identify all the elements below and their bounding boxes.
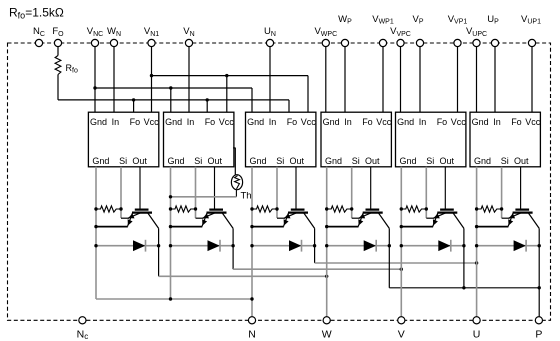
svg-text:Si: Si xyxy=(501,156,509,166)
svg-text:V: V xyxy=(398,329,405,341)
svg-text:VWPC: VWPC xyxy=(314,26,337,38)
svg-text:Fo: Fo xyxy=(287,117,298,127)
svg-text:Rfo: Rfo xyxy=(66,63,78,75)
svg-text:In: In xyxy=(269,117,277,127)
svg-text:Out: Out xyxy=(208,156,223,166)
svg-text:In: In xyxy=(419,117,427,127)
svg-text:VVP1: VVP1 xyxy=(448,14,468,26)
svg-text:Gnd: Gnd xyxy=(323,117,340,127)
svg-text:Vcc: Vcc xyxy=(376,117,392,127)
svg-text:Si: Si xyxy=(119,156,127,166)
svg-text:UN: UN xyxy=(264,26,276,38)
svg-text:Vcc: Vcc xyxy=(301,117,317,127)
svg-text:Gnd: Gnd xyxy=(168,156,185,166)
svg-text:Gnd: Gnd xyxy=(250,156,267,166)
svg-text:Gnd: Gnd xyxy=(165,117,182,127)
svg-text:Fo: Fo xyxy=(362,117,373,127)
svg-text:W: W xyxy=(322,329,332,341)
svg-text:VN: VN xyxy=(183,26,194,38)
svg-text:Fo: Fo xyxy=(511,117,522,127)
svg-text:VUP1: VUP1 xyxy=(521,14,541,26)
svg-text:NC: NC xyxy=(33,26,45,38)
svg-text:VWP1: VWP1 xyxy=(372,14,394,26)
svg-text:UP: UP xyxy=(487,14,499,26)
svg-text:WP: WP xyxy=(338,14,352,26)
svg-text:Gnd: Gnd xyxy=(472,117,489,127)
svg-text:Out: Out xyxy=(290,156,305,166)
svg-text:In: In xyxy=(187,117,195,127)
svg-text:Out: Out xyxy=(132,156,147,166)
svg-text:In: In xyxy=(493,117,501,127)
svg-text:Th: Th xyxy=(241,191,252,202)
svg-text:Out: Out xyxy=(440,156,455,166)
svg-text:N: N xyxy=(248,329,256,341)
svg-text:Fo: Fo xyxy=(437,117,448,127)
svg-text:Fo: Fo xyxy=(130,117,141,127)
svg-text:Si: Si xyxy=(276,156,284,166)
svg-text:Nc: Nc xyxy=(77,329,89,341)
svg-text:Vcc: Vcc xyxy=(144,117,160,127)
svg-text:Si: Si xyxy=(426,156,434,166)
svg-text:WN: WN xyxy=(107,26,121,38)
svg-text:In: In xyxy=(112,117,120,127)
svg-text:VUPC: VUPC xyxy=(466,26,487,38)
svg-text:VVPC: VVPC xyxy=(390,26,411,38)
svg-text:VN1: VN1 xyxy=(144,26,159,38)
svg-text:Gnd: Gnd xyxy=(90,117,107,127)
svg-text:Gnd: Gnd xyxy=(247,117,264,127)
svg-text:Gnd: Gnd xyxy=(400,156,417,166)
svg-text:Si: Si xyxy=(194,156,202,166)
svg-text:Out: Out xyxy=(514,156,529,166)
svg-text:Vcc: Vcc xyxy=(219,117,235,127)
svg-text:U: U xyxy=(473,329,481,341)
svg-text:In: In xyxy=(344,117,352,127)
svg-text:FO: FO xyxy=(52,26,64,38)
svg-text:Gnd: Gnd xyxy=(92,156,109,166)
svg-text:Vcc: Vcc xyxy=(525,117,541,127)
svg-text:Fo: Fo xyxy=(205,117,216,127)
svg-text:VNC: VNC xyxy=(87,26,103,38)
svg-text:Out: Out xyxy=(365,156,380,166)
svg-text:Si: Si xyxy=(352,156,360,166)
svg-text:Vcc: Vcc xyxy=(451,117,467,127)
svg-text:P: P xyxy=(535,329,542,341)
svg-text:VP: VP xyxy=(412,14,423,26)
svg-text:Gnd: Gnd xyxy=(325,156,342,166)
svg-text:Gnd: Gnd xyxy=(474,156,491,166)
svg-text:Gnd: Gnd xyxy=(397,117,414,127)
svg-text:Rfo=1.5kΩ: Rfo=1.5kΩ xyxy=(9,6,64,21)
